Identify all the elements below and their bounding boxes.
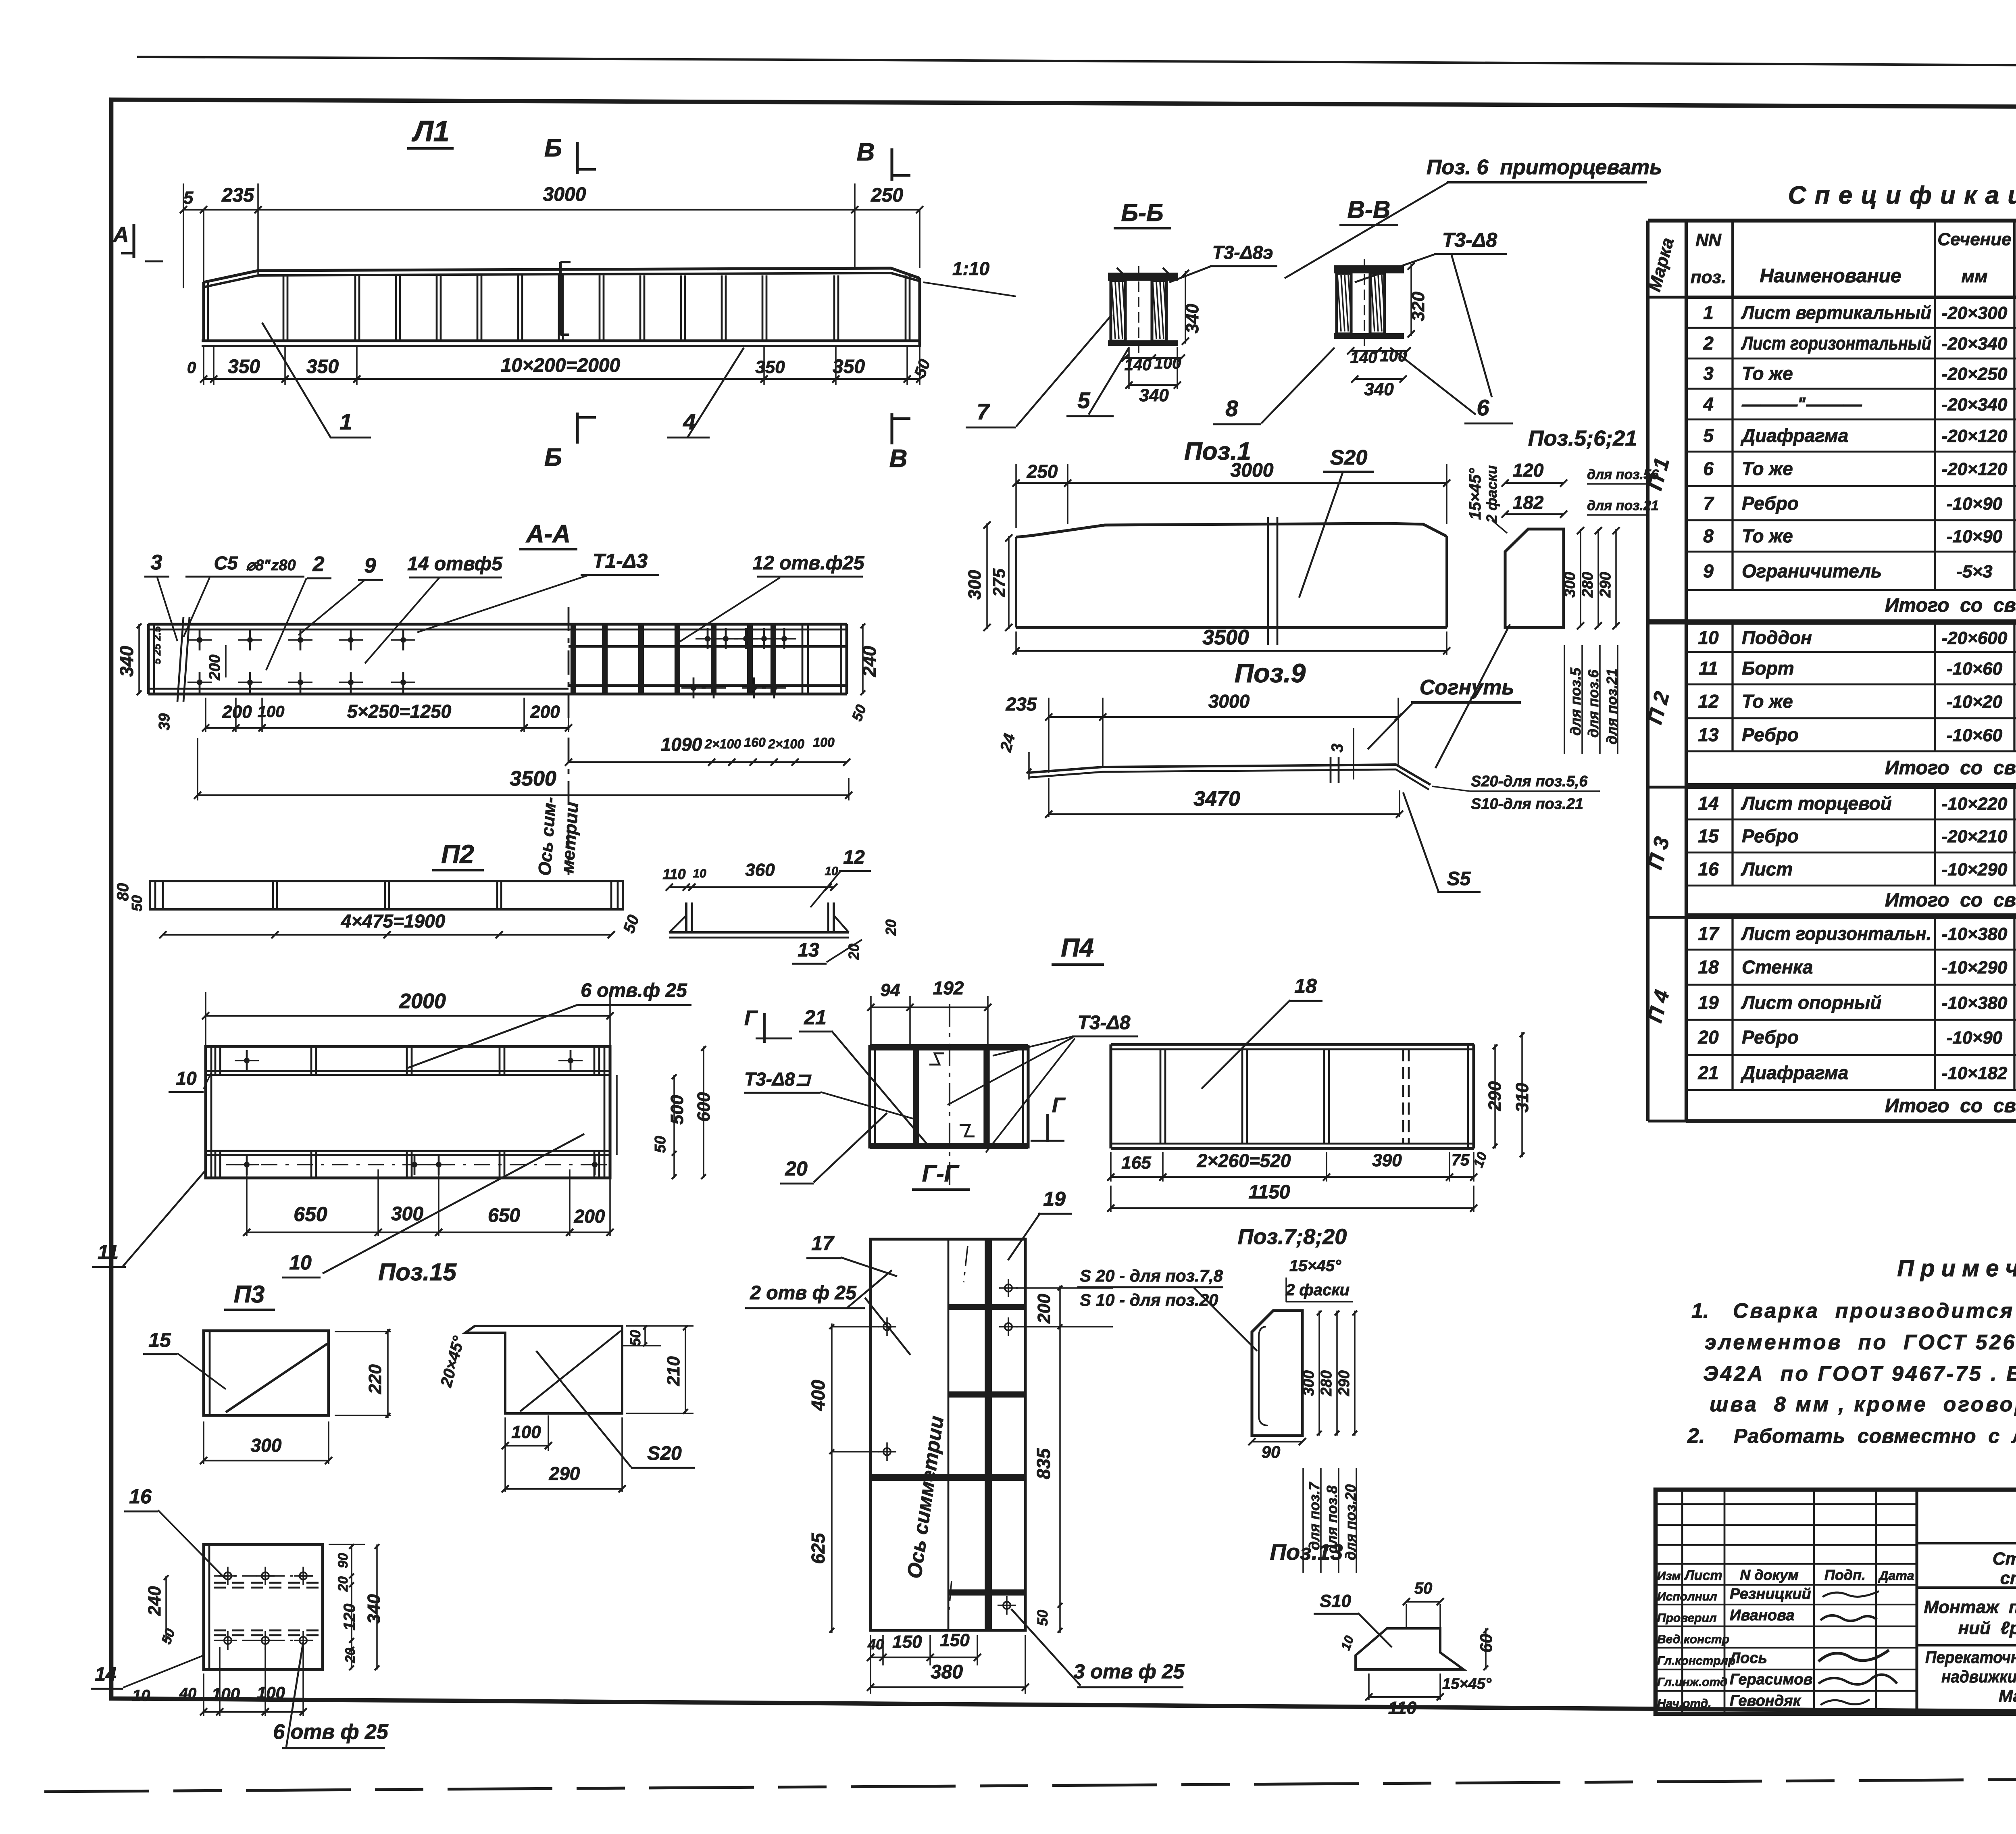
svg-text:Резницкий: Резницкий bbox=[1730, 1586, 1811, 1603]
table section П1 rows 1-9 bbox=[1686, 327, 2016, 329]
svg-text:Ребро: Ребро bbox=[1742, 493, 1799, 514]
svg-text:строения пролетами 40;60 и 8: строения пролетами 40;60 и 80 м bbox=[2000, 1568, 2016, 1588]
Б-Б dims bbox=[1185, 271, 1186, 344]
svg-text:5 25 2.5: 5 25 2.5 bbox=[151, 626, 163, 664]
Поз.1 body bbox=[1016, 523, 1447, 537]
svg-text:S20-для поз.5,6: S20-для поз.5,6 bbox=[1471, 773, 1588, 790]
П2 plate bottom dims bbox=[246, 1169, 248, 1236]
svg-text:14: 14 bbox=[95, 1664, 116, 1685]
svg-text:Гл.констрлр: Гл.констрлр bbox=[1657, 1654, 1735, 1667]
svg-text:13: 13 bbox=[798, 940, 819, 961]
svg-text:21: 21 bbox=[1697, 1062, 1718, 1083]
section В-В body bbox=[1334, 265, 1404, 273]
svg-text:320: 320 bbox=[1408, 292, 1428, 321]
svg-text:0: 0 bbox=[187, 359, 196, 377]
svg-text:15×45°: 15×45° bbox=[1466, 468, 1484, 520]
svg-text:Т1-Δ3: Т1-Δ3 bbox=[593, 550, 648, 572]
svg-text:4×475=1900: 4×475=1900 bbox=[341, 911, 446, 932]
trim line bottom (dashed) bbox=[44, 1777, 2016, 1792]
signatures squiggles bbox=[1822, 1591, 1879, 1597]
bottom dim 50-350-350-2000-350-350-50 bbox=[213, 347, 215, 385]
svg-text:Лист горизонтальн.: Лист горизонтальн. bbox=[1741, 923, 1931, 944]
поз.12 channel body bbox=[685, 902, 687, 932]
break squiggle bbox=[177, 617, 183, 702]
table header bbox=[1686, 219, 2016, 222]
svg-text:Т3-Δ8: Т3-Δ8 bbox=[1442, 229, 1497, 251]
svg-text:200: 200 bbox=[206, 654, 223, 680]
svg-text:11: 11 bbox=[98, 1241, 119, 1263]
svg-text:Поз.9: Поз.9 bbox=[1235, 658, 1306, 688]
svg-text:10: 10 bbox=[289, 1251, 312, 1274]
svg-text:Монтаж пролетных строе-: Монтаж пролетных строе- bbox=[1924, 1597, 2016, 1617]
200 vert dim bbox=[225, 645, 227, 677]
svg-text:10: 10 bbox=[1698, 627, 1719, 648]
svg-text:2×260=520: 2×260=520 bbox=[1197, 1150, 1291, 1171]
svg-text:-10×182: -10×182 bbox=[1942, 1063, 2008, 1083]
svg-text:Ограничитель: Ограничитель bbox=[1742, 561, 1882, 581]
tall plate ribs bbox=[948, 1304, 1025, 1310]
svg-text:Исполнил: Исполнил bbox=[1657, 1590, 1717, 1603]
svg-text:Нач.отд.: Нач.отд. bbox=[1657, 1697, 1712, 1710]
svg-text:40: 40 bbox=[867, 1636, 884, 1653]
svg-text:625: 625 bbox=[808, 1532, 829, 1564]
svg-text:7: 7 bbox=[1703, 493, 1714, 514]
Марка section lines bbox=[1648, 619, 1686, 622]
svg-text:100: 100 bbox=[258, 703, 285, 721]
svg-text:S10-для поз.21: S10-для поз.21 bbox=[1471, 796, 1583, 813]
svg-text:90: 90 bbox=[335, 1553, 351, 1568]
svg-text:Гл.инж.отд: Гл.инж.отд bbox=[1657, 1676, 1727, 1689]
svg-text:100: 100 bbox=[511, 1422, 541, 1442]
svg-text:П3: П3 bbox=[234, 1281, 265, 1308]
bolts upper row bbox=[197, 637, 202, 643]
right vert dims 300 280 290 bbox=[1580, 529, 1581, 627]
svg-text:200: 200 bbox=[574, 1206, 605, 1227]
А-А leaders bbox=[157, 577, 177, 641]
svg-text:мм: мм bbox=[1961, 267, 1987, 286]
svg-text:Лось: Лось bbox=[1729, 1650, 1767, 1667]
svg-text:20: 20 bbox=[335, 1576, 351, 1592]
svg-text:14: 14 bbox=[1698, 793, 1718, 814]
svg-text:Итого со сварными швами:: Итого со сварными швами: bbox=[1885, 1095, 2016, 1117]
svg-text:1: 1 bbox=[339, 409, 352, 434]
table section П4 rows 17-21 bbox=[1686, 949, 2016, 951]
svg-text:Поз. 6 приторцевать: Поз. 6 приторцевать bbox=[1427, 156, 1662, 179]
svg-text:340: 340 bbox=[1139, 386, 1169, 405]
svg-text:-20×120: -20×120 bbox=[1942, 426, 2008, 446]
svg-text:6: 6 bbox=[1703, 458, 1714, 479]
svg-text:-20×600: -20×600 bbox=[1942, 628, 2008, 648]
svg-text:Перекаточное устройство для: Перекаточное устройство для bbox=[1925, 1648, 2016, 1667]
svg-text:19: 19 bbox=[1698, 992, 1719, 1013]
svg-text:17: 17 bbox=[1698, 923, 1720, 944]
svg-text:П2: П2 bbox=[441, 840, 474, 869]
svg-text:3500: 3500 bbox=[510, 767, 556, 790]
svg-text:290: 290 bbox=[549, 1463, 580, 1484]
svg-text:Лист: Лист bbox=[1741, 859, 1793, 879]
Поз.13 body bbox=[1356, 1628, 1464, 1669]
Поз.7 dims bbox=[1318, 1311, 1320, 1436]
svg-text:8: 8 bbox=[1703, 525, 1714, 546]
svg-text:10: 10 bbox=[693, 867, 706, 880]
svg-text:240: 240 bbox=[859, 646, 880, 677]
svg-text:Ребро: Ребро bbox=[1742, 1027, 1799, 1048]
П2 plate right dims bbox=[616, 1075, 618, 1155]
svg-text:39: 39 bbox=[156, 713, 173, 730]
svg-text:192: 192 bbox=[933, 977, 964, 998]
svg-text:S20: S20 bbox=[1330, 446, 1368, 469]
svg-text:235: 235 bbox=[221, 185, 254, 206]
Поз.7 part body bbox=[1252, 1311, 1302, 1436]
svg-text:-5×3: -5×3 bbox=[1956, 562, 1992, 581]
svg-text:2: 2 bbox=[1703, 333, 1714, 354]
svg-text:Т3-Δ8: Т3-Δ8 bbox=[1078, 1012, 1131, 1034]
svg-text:340: 340 bbox=[1364, 379, 1394, 399]
svg-text:90: 90 bbox=[1262, 1442, 1281, 1461]
svg-text:50: 50 bbox=[627, 1330, 644, 1346]
svg-text:ний ℓрʺ 63+2×84+63 м: ний ℓрʺ 63+2×84+63 м bbox=[1958, 1618, 2016, 1638]
svg-text:2 отв ф 25: 2 отв ф 25 bbox=[750, 1282, 857, 1304]
svg-text:3000: 3000 bbox=[543, 184, 586, 205]
svg-text:Лист торцевой: Лист торцевой bbox=[1741, 793, 1892, 814]
svg-text:S20: S20 bbox=[647, 1443, 682, 1464]
svg-text:Т3-Δ8э: Т3-Δ8э bbox=[1212, 242, 1273, 263]
title block left table bbox=[1656, 1503, 1917, 1505]
svg-text:Л1: Л1 bbox=[411, 115, 450, 148]
svg-text:поз.: поз. bbox=[1691, 267, 1726, 287]
svg-text:6: 6 bbox=[1477, 395, 1489, 420]
svg-text:110: 110 bbox=[1388, 1698, 1417, 1718]
А-А left pallet body bbox=[148, 623, 569, 625]
svg-text:15: 15 bbox=[148, 1329, 171, 1351]
svg-text:15: 15 bbox=[1698, 825, 1719, 846]
title block frame bbox=[1656, 1490, 2016, 1714]
svg-text:160: 160 bbox=[744, 735, 766, 750]
svg-text:Борт: Борт bbox=[1742, 658, 1794, 679]
svg-text:Стенка: Стенка bbox=[1742, 957, 1813, 977]
svg-text:3000: 3000 bbox=[1208, 691, 1250, 712]
table section П3 rows 14-16 bbox=[1686, 819, 2016, 821]
Поз.1 dims 250 3000 bbox=[1015, 464, 1017, 528]
Марка column bbox=[1648, 219, 1686, 222]
svg-text:2×100: 2×100 bbox=[704, 737, 741, 751]
svg-text:S 10 - для поз.20: S 10 - для поз.20 bbox=[1080, 1290, 1218, 1309]
svg-text:-10×290: -10×290 bbox=[1942, 860, 2008, 879]
svg-text:275: 275 bbox=[989, 568, 1008, 597]
svg-text:3: 3 bbox=[1703, 363, 1714, 384]
Г-Г dims 94 192 bbox=[870, 996, 872, 1048]
svg-text:350: 350 bbox=[228, 356, 260, 377]
svg-text:9: 9 bbox=[1703, 561, 1714, 581]
svg-text:12: 12 bbox=[843, 847, 865, 868]
Поз.15/П3 rect bbox=[204, 1331, 329, 1415]
svg-text:140: 140 bbox=[1350, 349, 1377, 367]
svg-text:15×45°: 15×45° bbox=[1442, 1676, 1492, 1692]
Поз.1 dim 3500 bbox=[1015, 631, 1017, 655]
leader to piece bbox=[1435, 624, 1510, 768]
svg-text:Изм: Изм bbox=[1657, 1569, 1681, 1583]
svg-text:300: 300 bbox=[251, 1435, 282, 1456]
svg-text:100: 100 bbox=[212, 1684, 240, 1703]
svg-text:Б: Б bbox=[544, 134, 562, 162]
svg-text:100: 100 bbox=[257, 1683, 285, 1702]
svg-text:8: 8 bbox=[1225, 396, 1238, 421]
bottom dim 3500 bbox=[197, 738, 198, 800]
svg-text:-20×300: -20×300 bbox=[1942, 303, 2008, 323]
svg-text:Работать совместно с листам: Работать совместно с листами 19; 21. bbox=[1734, 1425, 2016, 1447]
svg-text:300: 300 bbox=[1300, 1370, 1317, 1396]
svg-text:То же: То же bbox=[1742, 458, 1793, 479]
svg-text:94: 94 bbox=[881, 980, 900, 1000]
svg-text:-10×20: -10×20 bbox=[1947, 692, 2003, 712]
svg-text:Итого со сварными швами:: Итого со сварными швами: bbox=[1885, 890, 2016, 911]
svg-text:120: 120 bbox=[341, 1604, 358, 1631]
svg-text:-10×60: -10×60 bbox=[1947, 725, 2003, 745]
Поз.9 dim 3470 bbox=[1048, 778, 1050, 817]
svg-text:Сталежелезобетонные пролетные: Сталежелезобетонные пролетные bbox=[1993, 1549, 2016, 1569]
svg-text:Итого со сварными швами:: Итого со сварными швами: bbox=[1885, 595, 2016, 616]
Поз.16 bottom dims bbox=[203, 1674, 204, 1716]
svg-text:650: 650 bbox=[294, 1203, 327, 1225]
svg-text:Итого со сварными швами:: Итого со сварными швами: bbox=[1885, 757, 2016, 779]
svg-text:5: 5 bbox=[1077, 388, 1090, 413]
svg-text:300: 300 bbox=[965, 570, 985, 600]
svg-text:Согнуть: Согнуть bbox=[1420, 676, 1514, 699]
svg-text:350: 350 bbox=[755, 357, 785, 377]
svg-text:210: 210 bbox=[664, 1356, 683, 1386]
svg-text:А-А: А-А bbox=[525, 520, 571, 548]
svg-text:50: 50 bbox=[129, 895, 145, 911]
svg-text:10: 10 bbox=[176, 1068, 197, 1089]
svg-text:Марки П1-П4: Марки П1-П4 bbox=[1999, 1686, 2016, 1705]
svg-text:20: 20 bbox=[785, 1157, 808, 1180]
Поз.16 right dims bbox=[329, 1544, 365, 1545]
Поз.15 body bbox=[465, 1326, 622, 1413]
svg-text:Поддон: Поддон bbox=[1742, 627, 1812, 648]
Г-Г section body bbox=[870, 1044, 1028, 1050]
svg-text:Сечение: Сечение bbox=[1937, 229, 2011, 249]
svg-text:3: 3 bbox=[151, 551, 162, 574]
svg-text:290: 290 bbox=[1336, 1370, 1353, 1396]
svg-text:-20×250: -20×250 bbox=[1942, 364, 2008, 384]
right dims 200 835 50 bbox=[1016, 1287, 1113, 1289]
svg-text:-20×210: -20×210 bbox=[1942, 827, 2008, 846]
svg-text:надвижки на фторопласте: надвижки на фторопласте bbox=[1941, 1667, 2016, 1686]
svg-text:Гевондяк: Гевондяк bbox=[1730, 1692, 1801, 1709]
svg-text:360: 360 bbox=[745, 860, 775, 880]
поз.12 dims bbox=[669, 886, 834, 888]
splice mark bbox=[559, 262, 562, 335]
bottom dims 40 150 150 380 bbox=[870, 1635, 871, 1694]
svg-text:Поз.13: Поз.13 bbox=[1270, 1539, 1343, 1565]
svg-text:235: 235 bbox=[1006, 694, 1037, 715]
svg-text:Вед.констр: Вед.констр bbox=[1657, 1633, 1729, 1646]
plate bolts bbox=[1005, 1284, 1012, 1292]
weld marks bbox=[929, 1053, 944, 1065]
svg-text:Т3-Δ8⊐: Т3-Δ8⊐ bbox=[744, 1069, 812, 1090]
svg-text:300: 300 bbox=[1562, 572, 1579, 597]
svg-text:Лист вертикальный: Лист вертикальный bbox=[1741, 302, 1931, 323]
title block right part bbox=[1917, 1542, 2016, 1544]
svg-text:15×45°: 15×45° bbox=[1289, 1257, 1341, 1275]
svg-text:9: 9 bbox=[364, 554, 376, 577]
svg-text:1:10: 1:10 bbox=[952, 258, 989, 279]
П2 strip body bbox=[150, 881, 623, 909]
svg-text:12: 12 bbox=[1698, 691, 1719, 712]
svg-text:182: 182 bbox=[1513, 492, 1544, 513]
svg-text:50: 50 bbox=[1414, 1580, 1433, 1597]
Поз.9 body bbox=[1029, 765, 1431, 785]
svg-text:3: 3 bbox=[1329, 744, 1346, 752]
А-А right grid part bbox=[569, 623, 847, 625]
svg-text:7: 7 bbox=[977, 399, 990, 424]
svg-text:В: В bbox=[889, 445, 908, 473]
svg-text:для поз.5: для поз.5 bbox=[1567, 667, 1584, 736]
section Б-Б body bbox=[1108, 273, 1178, 281]
svg-text:Лист опорный: Лист опорный bbox=[1741, 992, 1882, 1013]
left dims 400 625 bbox=[832, 1326, 879, 1328]
svg-text:П р и м е ч а н и я.: П р и м е ч а н и я. bbox=[1897, 1255, 2016, 1282]
svg-text:380: 380 bbox=[931, 1661, 963, 1683]
svg-text:1150: 1150 bbox=[1248, 1182, 1290, 1203]
svg-text:-20×120: -20×120 bbox=[1942, 459, 2008, 479]
beam П1 body bbox=[204, 268, 920, 282]
svg-text:-10×60: -10×60 bbox=[1947, 659, 2003, 679]
svg-text:⌀8ʺz80: ⌀8ʺz80 bbox=[246, 557, 296, 574]
svg-text:150: 150 bbox=[892, 1632, 922, 1652]
П2 plate body bbox=[206, 1046, 610, 1178]
svg-text:А: А bbox=[112, 223, 129, 247]
svg-text:340: 340 bbox=[364, 1594, 384, 1624]
svg-text:Наименование: Наименование bbox=[1760, 265, 1901, 287]
svg-text:Лист горизонтальный: Лист горизонтальный bbox=[1741, 333, 1931, 354]
svg-text:2 фаски: 2 фаски bbox=[1483, 465, 1500, 523]
svg-text:4: 4 bbox=[683, 409, 696, 434]
label 11 bbox=[123, 1170, 206, 1266]
svg-text:1090: 1090 bbox=[661, 734, 702, 755]
svg-text:Б-Б: Б-Б bbox=[1121, 199, 1164, 226]
svg-text:400: 400 bbox=[808, 1380, 829, 1411]
svg-text:1.: 1. bbox=[1691, 1299, 1709, 1323]
svg-text:Подп.: Подп. bbox=[1824, 1567, 1866, 1583]
bottom dims row2 1090 etc bbox=[569, 761, 847, 763]
svg-text:-10×90: -10×90 bbox=[1947, 527, 2003, 546]
svg-text:То же: То же bbox=[1742, 691, 1793, 712]
Поз.1 vert dims 300 275 bbox=[986, 523, 988, 629]
svg-text:100: 100 bbox=[813, 735, 835, 750]
svg-text:Поз.5;6;21: Поз.5;6;21 bbox=[1528, 426, 1637, 450]
svg-text:650: 650 bbox=[488, 1205, 520, 1226]
bolts lower row bbox=[197, 679, 202, 685]
svg-text:280: 280 bbox=[1579, 572, 1596, 598]
svg-text:-20×340: -20×340 bbox=[1942, 395, 2008, 415]
svg-text:20: 20 bbox=[1697, 1027, 1719, 1048]
tall plate body bbox=[871, 1239, 1025, 1630]
svg-text:3 отв ф 25: 3 отв ф 25 bbox=[1074, 1660, 1185, 1683]
svg-text:Б: Б bbox=[544, 444, 562, 471]
leader 4 bbox=[687, 348, 744, 438]
svg-text:элементов по ГОСТ 5264-69 э: элементов по ГОСТ 5264-69 электродами ти… bbox=[1705, 1331, 2016, 1354]
table section П2 rows 10-13 bbox=[1686, 651, 2016, 653]
svg-text:16: 16 bbox=[1698, 859, 1719, 879]
П3 dims bbox=[335, 1331, 391, 1332]
svg-text:То же: То же bbox=[1742, 525, 1793, 546]
П2 plate bolts bbox=[244, 1058, 250, 1063]
П2 plate dim 2000 bbox=[205, 992, 206, 1048]
svg-text:290: 290 bbox=[1597, 572, 1614, 598]
svg-text:Герасимов: Герасимов bbox=[1730, 1671, 1813, 1688]
svg-text:Поз.7;8;20: Поз.7;8;20 bbox=[1238, 1225, 1347, 1249]
svg-text:16: 16 bbox=[129, 1485, 152, 1508]
svg-text:Г: Г bbox=[1052, 1094, 1066, 1117]
svg-text:200: 200 bbox=[222, 702, 252, 722]
Поз.16 plate bbox=[204, 1544, 323, 1669]
П4 beam body bbox=[1111, 1043, 1474, 1046]
svg-text:11: 11 bbox=[1699, 658, 1718, 679]
svg-text:2×100: 2×100 bbox=[768, 737, 804, 751]
svg-text:165: 165 bbox=[1121, 1153, 1151, 1173]
svg-text:340: 340 bbox=[116, 646, 137, 677]
svg-text:350: 350 bbox=[306, 356, 339, 377]
svg-text:Г: Г bbox=[744, 1007, 758, 1030]
Поз.5;6;21 body bbox=[1505, 529, 1564, 627]
svg-text:40: 40 bbox=[179, 1685, 196, 1702]
svg-text:S 20 - для поз.7,8: S 20 - для поз.7,8 bbox=[1080, 1266, 1223, 1285]
svg-text:N докум: N докум bbox=[1740, 1567, 1799, 1583]
svg-text:-20×340: -20×340 bbox=[1942, 334, 2008, 354]
top dim line 5-235-3000-250 bbox=[183, 183, 184, 288]
svg-text:5: 5 bbox=[183, 188, 194, 208]
svg-text:12 отв.ф25: 12 отв.ф25 bbox=[753, 552, 865, 574]
svg-text:То же: То же bbox=[1742, 363, 1793, 384]
В-В dims bbox=[1410, 264, 1412, 336]
svg-text:500: 500 bbox=[667, 1095, 687, 1125]
svg-text:10×200=2000: 10×200=2000 bbox=[501, 355, 621, 376]
svg-text:2.: 2. bbox=[1687, 1424, 1705, 1448]
svg-text:835: 835 bbox=[1033, 1448, 1054, 1479]
svg-text:3470: 3470 bbox=[1193, 787, 1240, 811]
svg-text:-10×380: -10×380 bbox=[1942, 924, 2008, 944]
50 dim bbox=[1406, 1601, 1440, 1603]
svg-text:Сварка производится по конт: Сварка производится по контуру прилегани… bbox=[1733, 1299, 2016, 1323]
center axis bbox=[568, 607, 570, 875]
svg-text:Иванова: Иванова bbox=[1730, 1607, 1795, 1624]
svg-text:240: 240 bbox=[145, 1586, 165, 1616]
svg-text:Проверил: Проверил bbox=[1657, 1611, 1717, 1625]
svg-text:18: 18 bbox=[1698, 957, 1719, 977]
svg-text:3000: 3000 bbox=[1231, 460, 1274, 481]
svg-text:для поз.6: для поз.6 bbox=[1585, 669, 1602, 738]
svg-text:20: 20 bbox=[883, 919, 899, 936]
svg-text:220: 220 bbox=[365, 1364, 385, 1394]
svg-text:-10×90: -10×90 bbox=[1947, 1028, 2003, 1048]
svg-text:5×250=1250: 5×250=1250 bbox=[347, 701, 452, 722]
bolts right top bbox=[705, 636, 710, 642]
svg-text:В: В bbox=[857, 138, 875, 166]
svg-text:2 фаски: 2 фаски bbox=[1285, 1281, 1350, 1299]
svg-text:П4: П4 bbox=[1061, 933, 1094, 962]
svg-text:S5: S5 bbox=[1447, 868, 1471, 890]
svg-text:-10×380: -10×380 bbox=[1942, 993, 2008, 1013]
П4 beam bottom dims bbox=[1110, 1152, 1112, 1182]
Поз.9 dims 235 3000 bbox=[1048, 698, 1050, 773]
svg-text:NN: NN bbox=[1695, 230, 1722, 250]
leader 1 bbox=[262, 323, 331, 438]
svg-text:150: 150 bbox=[940, 1630, 970, 1650]
svg-text:250: 250 bbox=[1027, 461, 1058, 482]
svg-text:250: 250 bbox=[871, 185, 903, 206]
svg-text:21: 21 bbox=[804, 1006, 827, 1029]
